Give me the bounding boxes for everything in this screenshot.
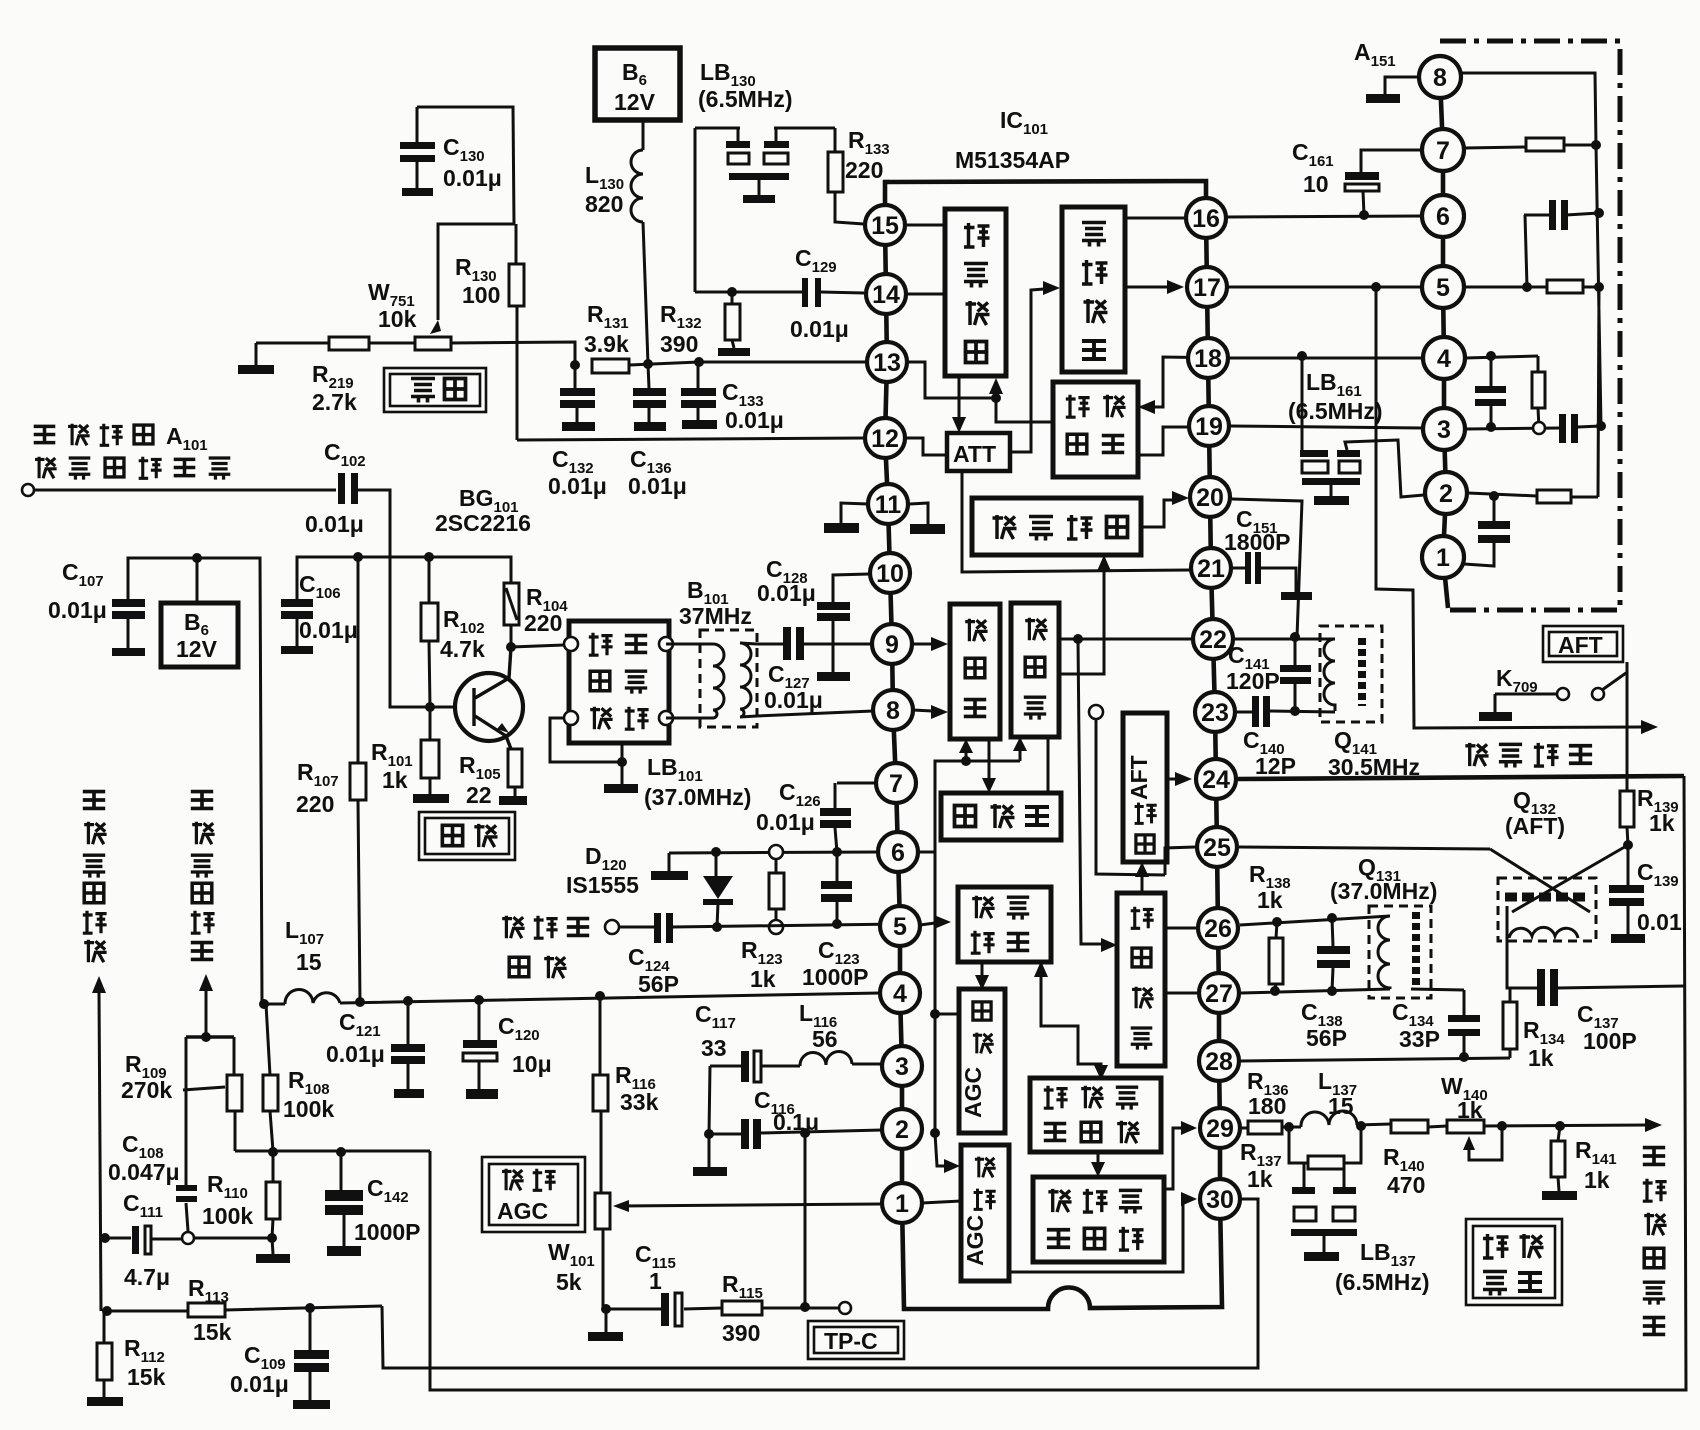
svg-text:100k: 100k (283, 1096, 334, 1122)
wire node to limiter (996, 398, 1053, 422)
resistor R115 (722, 1301, 762, 1315)
svg-text:56P: 56P (1306, 1025, 1347, 1051)
svg-text:4: 4 (1437, 345, 1451, 373)
svg-text:15: 15 (296, 949, 322, 975)
inductor L116 (800, 1051, 852, 1066)
FM detector block (945, 209, 1006, 376)
arrow into first IF bottom (959, 739, 973, 753)
arrow color noise down into black noise (1097, 1152, 1100, 1163)
svg-text:6: 6 (891, 839, 905, 867)
svg-text:M51354AP: M51354AP (955, 147, 1070, 173)
capacitor A3 series (1559, 414, 1578, 443)
svg-text:0.01μ: 0.01μ (628, 473, 687, 499)
wire ATT bottom to pin21 (962, 471, 1190, 572)
node fm det bottom (991, 393, 1001, 403)
svg-text:2: 2 (895, 1116, 909, 1144)
node A5 cap (1522, 282, 1532, 292)
Q141 coil (1324, 639, 1335, 711)
resistor R116 (593, 996, 608, 1193)
limiter amp block (1053, 382, 1138, 477)
wire bottom return L1 (382, 1199, 1258, 1368)
resistor R139 (1620, 791, 1634, 845)
wire line B C111 (105, 1238, 272, 1239)
capacitor C124 (654, 913, 673, 943)
IC right pin circles (1186, 198, 1240, 1219)
wire pin12 line (517, 438, 865, 440)
color noise suppressor block (1030, 1078, 1161, 1152)
A151 module dash-dot border (1440, 41, 1620, 610)
svg-text:820: 820 (585, 191, 623, 217)
resistor R108 (263, 1004, 278, 1151)
wire pin19 to A3 (1230, 426, 1423, 428)
ATT block (947, 433, 1010, 471)
capacitor C106 (281, 599, 313, 654)
node L137 left (1284, 1122, 1294, 1132)
wire sound det to pin20 arrow (1141, 500, 1173, 527)
svg-text:12V: 12V (614, 89, 656, 115)
arrow into third IF bottom (1013, 737, 1027, 751)
Q131 coil (1378, 916, 1390, 989)
second IF amp block (941, 793, 1061, 840)
svg-text:0.047μ: 0.047μ (108, 1159, 180, 1185)
svg-text:5k: 5k (556, 1269, 582, 1295)
node bias (961, 756, 971, 766)
wire collector to SAW (511, 645, 564, 647)
svg-text:1: 1 (649, 1268, 662, 1294)
resistor A5 (1547, 280, 1583, 293)
capacitor C140 (1252, 696, 1270, 727)
svg-text:1k: 1k (750, 966, 776, 992)
resistor R140 (1391, 1120, 1428, 1133)
node R107 bottom (355, 997, 365, 1007)
svg-text:15k: 15k (127, 1364, 166, 1390)
IC left pin circles (865, 205, 922, 1223)
svg-text:100P: 100P (1583, 1028, 1637, 1054)
wire pin23 line (1237, 711, 1335, 712)
resistor R132 (718, 292, 750, 356)
wire pin16 to A6 (1227, 216, 1422, 217)
svg-text:1k: 1k (1649, 810, 1675, 836)
capacitor C116 (741, 1119, 761, 1149)
svg-text:7: 7 (1436, 137, 1450, 165)
Q132 coil (1507, 906, 1578, 938)
node A3 cap (1486, 422, 1496, 432)
text sound output (1465, 743, 1592, 768)
node R139 bottom (1623, 840, 1633, 850)
arrow to tuner LO (199, 974, 213, 1037)
svg-text:33P: 33P (1399, 1026, 1440, 1052)
resistor R136 (1248, 1121, 1282, 1134)
resistor R113 (107, 1303, 382, 1317)
wire bias to rf agc arrow (935, 1133, 944, 1166)
wire RF AGC out to pin30 arrow (1009, 1199, 1183, 1272)
svg-text:33: 33 (701, 1035, 727, 1061)
svg-text:390: 390 (722, 1320, 760, 1346)
svg-text:0.01μ: 0.01μ (756, 809, 815, 835)
svg-text:26: 26 (1204, 915, 1232, 943)
IC101 outline (885, 181, 1222, 1309)
capacitor C108 (176, 1185, 197, 1202)
arrow noise suppressor down into mid AGC (981, 962, 984, 976)
svg-text:23: 23 (1201, 699, 1229, 727)
wire IF input (34, 489, 336, 492)
node R131 left (570, 360, 580, 370)
wire pin24 top rail (1238, 776, 1684, 779)
Q131 core (1412, 912, 1420, 986)
svg-text:15k: 15k (193, 1319, 232, 1345)
node R110 top (268, 1147, 278, 1157)
wire pin2 line (709, 1130, 882, 1134)
wire pin5 line (619, 924, 900, 927)
capacitor C130 (400, 107, 435, 196)
wire pin8 line (757, 711, 873, 716)
wire A4 right (1465, 356, 1538, 358)
wire pin25 stub (1165, 847, 1195, 875)
node C109 (305, 1303, 315, 1313)
svg-text:390: 390 (660, 331, 698, 357)
wire SAW ground leg (550, 718, 622, 784)
svg-text:1k: 1k (1247, 1166, 1273, 1192)
svg-text:14: 14 (872, 281, 900, 309)
Q132 core bar (1505, 893, 1590, 902)
svg-text:24: 24 (1202, 766, 1230, 794)
svg-text:220: 220 (845, 157, 883, 183)
arrow FM det down into ATT (958, 376, 961, 419)
node base (425, 702, 435, 712)
svg-text:33k: 33k (620, 1089, 659, 1115)
node B6 left box (192, 553, 202, 563)
svg-text:AGC: AGC (960, 1067, 986, 1118)
AFT detector block (1123, 713, 1167, 862)
arrow node up into FM det (995, 392, 998, 398)
transformer B101 dashed box (700, 630, 757, 727)
svg-text:10k: 10k (378, 306, 417, 332)
resistor R130 (509, 224, 524, 440)
wire pin27 line (1241, 989, 1464, 993)
inductor L130 (631, 120, 648, 364)
ceramic filter LB130 (695, 128, 835, 292)
arrow pin9 into first IF (912, 643, 932, 646)
node R110 bottom (267, 1233, 277, 1243)
node C123 C126 (832, 847, 842, 857)
capacitor C121 (391, 1001, 425, 1098)
test point TP-C terminal (839, 1302, 851, 1314)
wire C108 branch (186, 1037, 188, 1231)
node C141 bottom (1290, 706, 1300, 716)
svg-text:3: 3 (1437, 416, 1451, 444)
node bus cap (1594, 208, 1604, 218)
video detector block (1117, 893, 1165, 1066)
wire R115 line (606, 1308, 838, 1309)
svg-text:27: 27 (1205, 980, 1233, 1008)
node SAW gnd (617, 757, 627, 767)
A151 pin circles (1419, 56, 1467, 578)
arrow pin8 into first IF (913, 710, 932, 711)
node L130 bottom (643, 359, 653, 369)
resistor R105 emitter (499, 749, 527, 805)
Q141 core (1358, 638, 1366, 706)
sound detector block (972, 498, 1141, 555)
crossover circle C108 (182, 1232, 194, 1244)
B6 12V supply box top (595, 48, 680, 120)
resistor R131 (592, 359, 629, 373)
mid AGC block (959, 989, 1005, 1133)
svg-text:30: 30 (1206, 1186, 1234, 1214)
arrow AFT det to pin24 (1167, 778, 1176, 781)
wire pin29 video line (1240, 1124, 1648, 1128)
node R108 top rail (259, 999, 269, 1009)
node C116 left (704, 1129, 714, 1139)
capacitor C107 (112, 599, 145, 656)
capacitor C102 (338, 473, 456, 707)
node D120 anode (711, 847, 721, 857)
capacitor C123 (821, 852, 852, 924)
transistor Q132 cross wires (1490, 845, 1628, 912)
svg-text:7: 7 (889, 770, 903, 798)
capacitor C126 (820, 783, 878, 852)
node C141 top (1290, 632, 1300, 642)
svg-text:13: 13 (873, 349, 901, 377)
resistor R133 (828, 128, 864, 224)
transistor BG101 (455, 647, 523, 749)
svg-text:(6.5MHz): (6.5MHz) (1288, 398, 1383, 424)
svg-text:1k: 1k (1457, 1097, 1483, 1123)
svg-text:ATT: ATT (953, 441, 996, 467)
svg-text:6: 6 (1436, 203, 1450, 231)
capacitor C128 (817, 574, 869, 681)
input terminal (22, 484, 34, 496)
svg-text:10μ: 10μ (512, 1051, 552, 1077)
capacitor C129 (802, 278, 864, 307)
wire pin1 to RF AGC (922, 1201, 961, 1203)
wire A3 right (1465, 426, 1601, 429)
wire pin18 to A4 (1229, 357, 1423, 360)
volume label box (384, 368, 486, 412)
svg-text:17: 17 (1193, 274, 1221, 302)
node R107 top (353, 552, 363, 562)
capacitor C120 electrolytic (463, 1000, 498, 1099)
node R113 left (102, 1306, 112, 1316)
wire pin18 to limiter with arrow (1155, 357, 1228, 407)
node R138 top (1272, 917, 1282, 927)
RF AGC internal block (961, 1145, 1009, 1281)
svg-text:37MHz: 37MHz (679, 603, 752, 629)
ground pin11 right (910, 503, 945, 534)
resistor R110 (256, 1152, 290, 1263)
wire AGC line A (235, 1150, 430, 1153)
node collector (506, 642, 516, 652)
ground C116 (693, 1167, 727, 1176)
svg-text:10: 10 (876, 560, 904, 588)
svg-text:IS1555: IS1555 (566, 872, 639, 898)
svg-text:22: 22 (466, 782, 492, 808)
wire pin25 line (1239, 847, 1490, 849)
capacitor A2-A1 (1464, 496, 1510, 566)
crossover circle pin23 line (1089, 705, 1103, 719)
wire noise supp to color noise path (1041, 975, 1101, 1068)
node pin2 bias (930, 1128, 940, 1138)
text yinliang (411, 379, 435, 403)
wire pin13 inner to node (908, 362, 996, 398)
switch K709 (1479, 662, 1627, 790)
wire third IF out to pin22 (1059, 638, 1191, 641)
svg-text:120P: 120P (1226, 668, 1280, 694)
top-left supply: wire C130 node (417, 107, 514, 320)
capacitor C133 (681, 362, 717, 429)
resistor A2 (1537, 490, 1571, 503)
svg-text:1k: 1k (1584, 1167, 1610, 1193)
wire block to pin16 (1125, 217, 1185, 220)
svg-text:12V: 12V (176, 636, 218, 662)
node C120 (474, 995, 484, 1005)
resistor R107 (350, 557, 366, 1002)
svg-text:100k: 100k (202, 1203, 253, 1229)
svg-text:(AFT): (AFT) (1505, 813, 1565, 839)
svg-text:5: 5 (893, 913, 907, 941)
node R141 top (1555, 1121, 1565, 1131)
node pin22 takeoff (1073, 634, 1083, 644)
audio driver block (1062, 207, 1125, 372)
capacitor C161 electrolytic (1345, 150, 1422, 215)
capacitor C137 (1537, 969, 1558, 1006)
node W140 right (1497, 1121, 1507, 1131)
svg-text:29: 29 (1206, 1115, 1234, 1143)
resistor A4-A3 (1532, 356, 1545, 428)
first IF amp block (950, 604, 1000, 739)
capacitor A4-A3 (1475, 356, 1506, 426)
node C134 bottom (1459, 1052, 1469, 1062)
node C142 top (336, 1147, 346, 1157)
wire bias bus pin6 (920, 750, 1020, 852)
black noise suppressor block (1033, 1177, 1164, 1262)
svg-text:56P: 56P (638, 971, 679, 997)
svg-text:16: 16 (1192, 205, 1220, 233)
svg-text:12P: 12P (1255, 753, 1296, 779)
svg-text:0.01μ: 0.01μ (305, 511, 364, 537)
wire bottom return L2 (430, 776, 1686, 1390)
inductor L137 (1301, 1111, 1357, 1127)
wire A5 right resistor (1464, 286, 1599, 289)
ground pin6 (651, 871, 688, 880)
node R102 top (424, 552, 434, 562)
trap Q131 dashed box (1369, 906, 1431, 998)
svg-text:1k: 1k (1257, 887, 1283, 913)
arrow pin5 into noise suppressor (920, 923, 935, 925)
text to tuner RF column (83, 792, 107, 963)
resistor R141 (1542, 1126, 1577, 1200)
ground LB101 (604, 784, 638, 793)
capacitor C136 (633, 364, 666, 431)
inductor L107 (285, 989, 340, 1004)
node A4 cap (1486, 351, 1496, 361)
svg-text:1k: 1k (382, 767, 408, 793)
wire pin20 drop (1232, 499, 1302, 637)
svg-text:0.1μ: 0.1μ (773, 1109, 819, 1135)
svg-text:(6.5MHz): (6.5MHz) (1335, 1269, 1430, 1295)
svg-text:0.01μ: 0.01μ (757, 580, 816, 606)
node C161 bottom (1359, 210, 1369, 220)
wire pin22 node down to video det arrow (1078, 639, 1101, 944)
wire A2 right (1468, 493, 1598, 497)
svg-text:0.01: 0.01 (1637, 909, 1682, 935)
svg-text:21: 21 (1197, 555, 1225, 583)
node C138 bottom (1327, 986, 1337, 996)
svg-text:100: 100 (462, 282, 500, 308)
svg-text:1k: 1k (1528, 1045, 1554, 1071)
svg-text:2.7k: 2.7k (312, 389, 357, 415)
node mid AGC left (930, 1009, 940, 1019)
wire pin4 bus with L107 (262, 993, 880, 1004)
wire video det to pin27 (1165, 992, 1197, 995)
svg-text:0.01μ: 0.01μ (230, 1371, 289, 1397)
svg-text:2: 2 (1439, 480, 1453, 508)
svg-text:15: 15 (871, 212, 899, 240)
svg-text:11: 11 (875, 491, 902, 519)
svg-text:9: 9 (885, 631, 899, 659)
svg-text:10: 10 (1303, 171, 1329, 197)
wire A8 left ground (1366, 77, 1419, 103)
ground at R219 (238, 343, 274, 374)
wire block to pin17 with arrow (1125, 286, 1168, 289)
potentiometer W101 (588, 1193, 623, 1341)
capacitor C109 (293, 1308, 330, 1409)
crossover circle R123 top (769, 845, 783, 859)
svg-text:1: 1 (1436, 544, 1450, 572)
capacitor C132 (560, 365, 595, 431)
svg-text:470: 470 (1387, 1172, 1425, 1198)
capacitor C138 (1317, 918, 1350, 991)
svg-text:AFT: AFT (1126, 755, 1152, 800)
svg-text:5: 5 (1436, 274, 1450, 302)
node pin2 x805 (800, 1128, 810, 1138)
svg-text:4: 4 (893, 980, 907, 1008)
wire first IF down to second IF arrow (988, 739, 991, 780)
node R116 top (595, 991, 605, 1001)
wire C117 corner down (709, 1066, 710, 1167)
AFT switch label box (1543, 626, 1623, 662)
wiper wire from pin1 (617, 1204, 880, 1206)
svg-text:0.01μ: 0.01μ (326, 1041, 385, 1067)
wire limiter to pin19 (1138, 427, 1188, 455)
svg-text:56: 56 (812, 1026, 838, 1052)
node LO (201, 1032, 211, 1042)
wire Q132 bottom to C137 (1507, 938, 1684, 988)
svg-text:0.01μ: 0.01μ (299, 617, 358, 643)
svg-text:1000P: 1000P (802, 964, 869, 990)
node A2 cap (1489, 491, 1499, 501)
wire pin3 line (710, 1064, 882, 1066)
svg-text:AFT: AFT (1558, 632, 1603, 658)
svg-text:0.01μ: 0.01μ (548, 473, 607, 499)
wire LB130 to C129 node (695, 291, 802, 294)
resistor R112 (87, 1311, 123, 1406)
crossover circle A3 res (1533, 422, 1545, 434)
wire third IF down to second IF (1047, 737, 1050, 793)
ceramic filter LB137 (1291, 1163, 1357, 1261)
node C138 top (1327, 913, 1337, 923)
svg-text:8: 8 (1433, 64, 1447, 92)
svg-text:28: 28 (1205, 1048, 1233, 1076)
svg-text:TP-C: TP-C (824, 1328, 878, 1354)
text to video buffer stage (1643, 1148, 1667, 1335)
capacitor C139 (1609, 845, 1645, 943)
svg-text:15: 15 (1328, 1093, 1354, 1119)
noise suppressor block (958, 887, 1051, 962)
svg-text:20: 20 (1196, 484, 1224, 512)
svg-text:220: 220 (524, 610, 562, 636)
svg-text:3: 3 (895, 1053, 909, 1081)
wire A8 right to bus (1461, 73, 1596, 145)
